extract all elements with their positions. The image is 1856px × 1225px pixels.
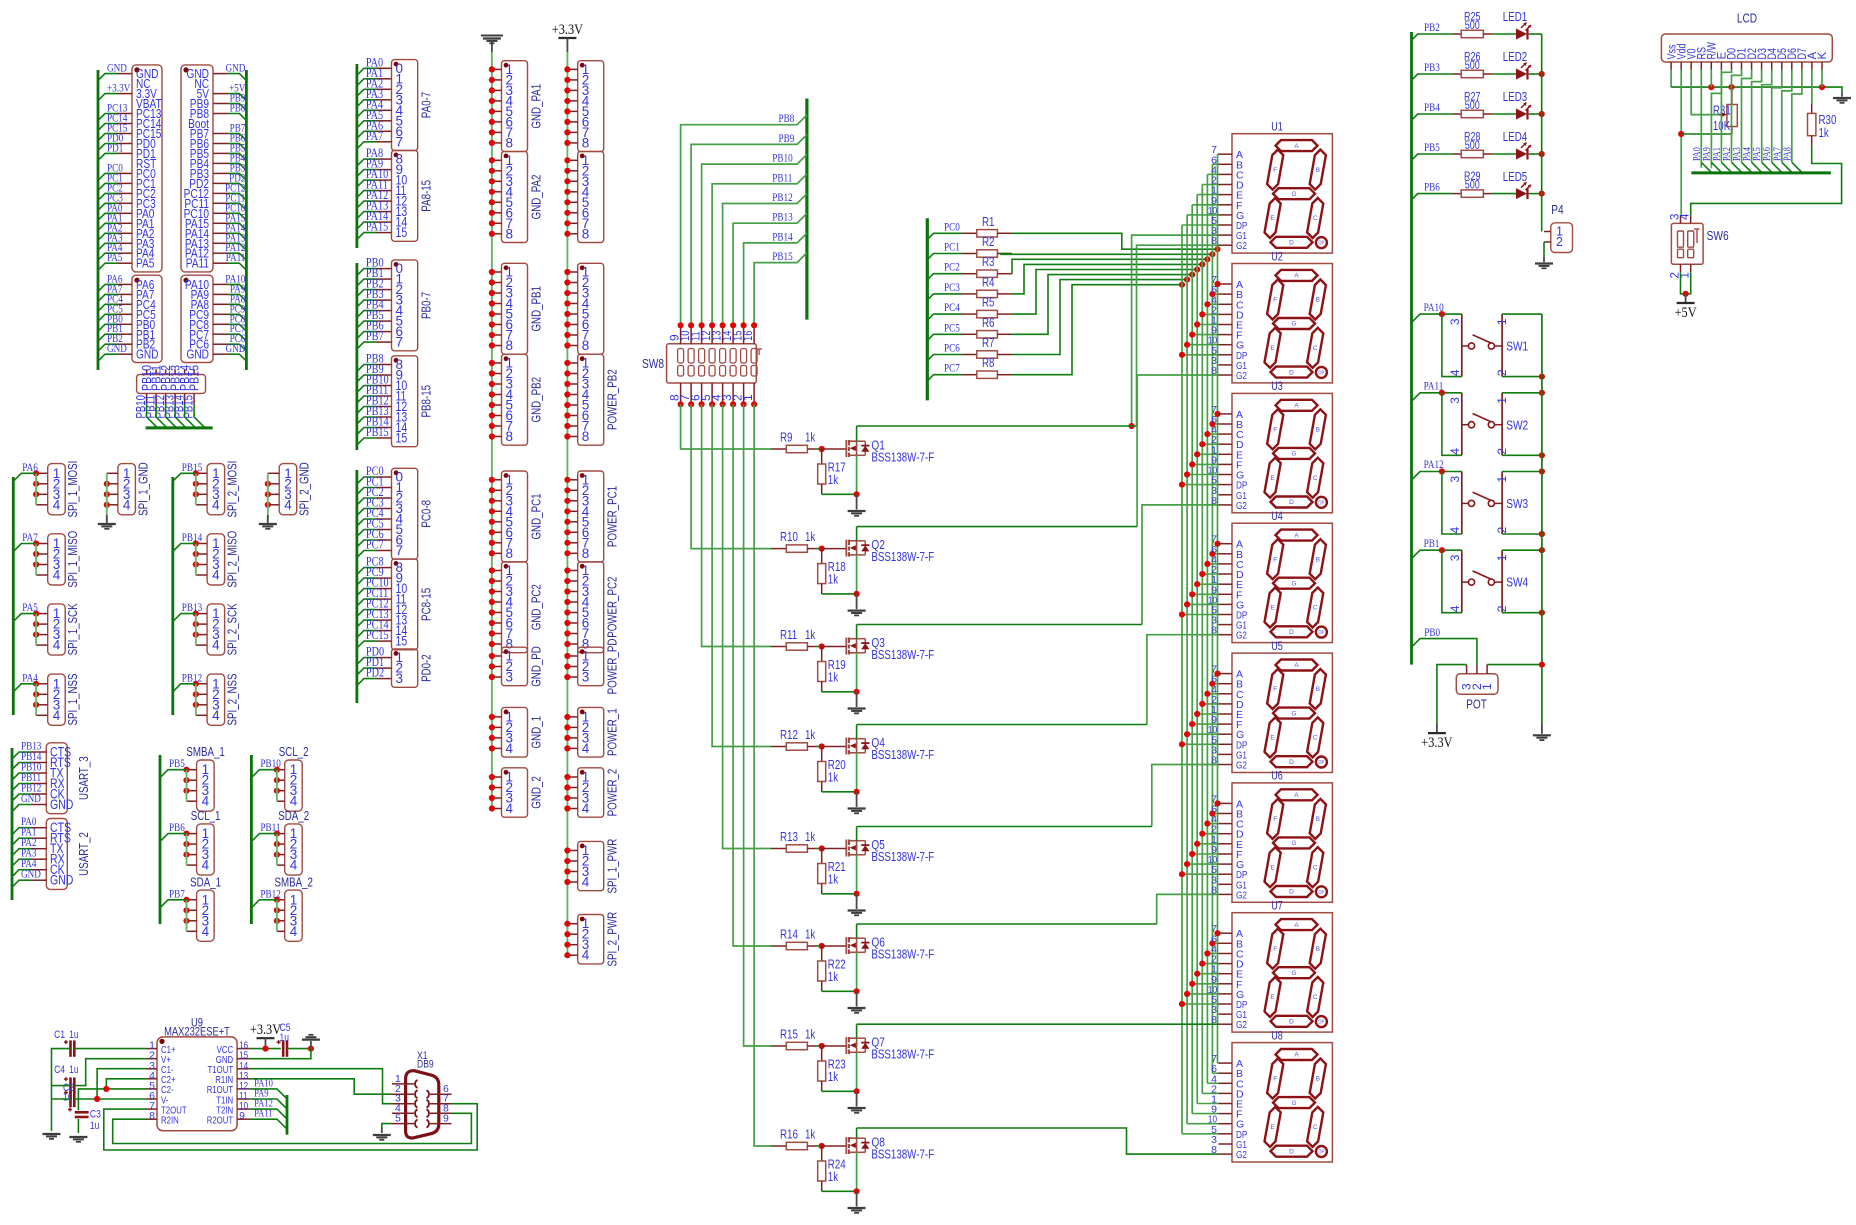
svg-text:G: G xyxy=(1291,840,1296,847)
svg-text:8: 8 xyxy=(506,226,514,241)
wire xyxy=(106,473,108,505)
connector SPI_1_NSS xyxy=(48,674,65,725)
resistor R13 xyxy=(771,848,786,850)
wire xyxy=(815,945,822,947)
resistor R15 xyxy=(771,1045,786,1047)
power +3.3V xyxy=(558,37,576,39)
svg-text:1u: 1u xyxy=(90,1120,100,1132)
connector SCL_2 xyxy=(285,760,303,811)
net PC10 xyxy=(357,589,377,596)
svg-text:15: 15 xyxy=(396,634,408,649)
wire xyxy=(1218,673,1219,675)
svg-text:DB9: DB9 xyxy=(417,1059,434,1071)
connector SPI_1_SCK xyxy=(48,604,65,655)
net PD1 xyxy=(357,668,377,675)
wire xyxy=(287,1048,311,1050)
net PB15 xyxy=(357,438,377,445)
svg-text:MAX232ESE+T: MAX232ESE+T xyxy=(164,1024,230,1038)
svg-text:DP: DP xyxy=(1318,241,1324,247)
svg-text:PA5: PA5 xyxy=(22,602,38,614)
ground xyxy=(856,894,858,909)
resistor R12 xyxy=(771,746,786,748)
junction xyxy=(1539,662,1545,668)
svg-text:R8: R8 xyxy=(982,356,995,370)
svg-text:R14: R14 xyxy=(780,928,798,942)
svg-text:PC0: PC0 xyxy=(944,221,960,233)
svg-text:1k: 1k xyxy=(805,728,816,742)
svg-text:1k: 1k xyxy=(805,530,816,544)
wire xyxy=(35,473,37,505)
net PB2 xyxy=(357,290,377,297)
junction xyxy=(1179,611,1185,617)
wire xyxy=(104,1104,477,1150)
svg-text:G2: G2 xyxy=(1236,889,1247,901)
svg-text:D: D xyxy=(1289,759,1294,766)
svg-text:SMBA_1: SMBA_1 xyxy=(186,745,225,759)
wire xyxy=(195,473,197,505)
svg-text:15: 15 xyxy=(396,225,408,240)
svg-text:F: F xyxy=(1273,427,1277,434)
svg-text:1k: 1k xyxy=(828,671,839,685)
wire xyxy=(1711,70,1721,168)
junction xyxy=(1199,961,1205,967)
junction xyxy=(1179,741,1185,747)
svg-text:4: 4 xyxy=(290,858,298,873)
net GND xyxy=(228,354,246,361)
svg-text:A: A xyxy=(1294,143,1299,150)
wire xyxy=(1492,113,1516,115)
resistor R26 xyxy=(1453,73,1462,75)
net PA5 xyxy=(13,614,36,622)
switch SW6 xyxy=(1671,223,1703,264)
resistor R20 xyxy=(821,747,823,762)
transistor Q6 BSS138W-7-F xyxy=(822,945,847,947)
wire xyxy=(856,555,858,594)
svg-text:DP: DP xyxy=(1318,500,1324,506)
power +5V xyxy=(1685,294,1687,303)
svg-text:B: B xyxy=(1316,686,1320,693)
svg-text:R11: R11 xyxy=(780,628,797,642)
resistor R2 xyxy=(962,253,977,255)
junction xyxy=(819,743,825,749)
svg-text:D: D xyxy=(1289,369,1294,376)
wire xyxy=(1182,873,1219,875)
wire xyxy=(856,527,858,541)
svg-text:D: D xyxy=(1289,1148,1294,1155)
junction xyxy=(1214,246,1220,252)
svg-text:1k: 1k xyxy=(828,473,839,487)
svg-text:G: G xyxy=(1291,710,1296,717)
wire xyxy=(1671,87,1842,93)
svg-text:G: G xyxy=(1291,1100,1296,1107)
svg-text:7: 7 xyxy=(396,543,404,558)
svg-text:F: F xyxy=(1273,946,1277,953)
junction xyxy=(819,643,825,649)
svg-text:4: 4 xyxy=(290,794,298,809)
wire xyxy=(822,493,857,495)
svg-text:PA4: PA4 xyxy=(22,672,38,684)
wire xyxy=(1192,593,1218,595)
svg-text:PC2: PC2 xyxy=(944,262,960,274)
ground xyxy=(491,42,493,52)
svg-text:500: 500 xyxy=(1465,20,1480,32)
net PA2 xyxy=(1732,162,1742,172)
wire xyxy=(1192,853,1218,855)
wire xyxy=(74,1048,146,1050)
LED LED3 xyxy=(1516,109,1527,120)
svg-text:8: 8 xyxy=(1211,495,1217,507)
svg-text:LED1: LED1 xyxy=(1503,10,1527,24)
svg-text:4: 4 xyxy=(290,924,298,939)
net PA5 xyxy=(357,121,377,128)
svg-text:4: 4 xyxy=(582,801,590,816)
junction xyxy=(1199,701,1205,707)
svg-text:SCL_2: SCL_2 xyxy=(279,745,309,759)
svg-text:PB14: PB14 xyxy=(772,231,793,243)
svg-text:LED2: LED2 xyxy=(1503,50,1527,64)
svg-text:GND_1: GND_1 xyxy=(530,716,544,749)
resistor R14 xyxy=(771,945,786,947)
junction xyxy=(1209,551,1215,557)
svg-text:F: F xyxy=(1273,556,1277,563)
svg-text:C: C xyxy=(1313,735,1318,742)
wire xyxy=(1187,603,1218,605)
wire xyxy=(1197,843,1218,845)
svg-text:POWER_1: POWER_1 xyxy=(606,708,620,756)
net PC10 xyxy=(228,213,246,220)
wire xyxy=(856,855,858,894)
svg-text:POWER_PD: POWER_PD xyxy=(606,639,620,695)
net PB2 xyxy=(1412,34,1453,40)
svg-text:4: 4 xyxy=(1448,369,1462,376)
svg-text:4: 4 xyxy=(506,801,514,816)
junction xyxy=(1209,251,1215,257)
wire xyxy=(744,404,771,1046)
net PD2 xyxy=(357,679,377,686)
svg-text:3: 3 xyxy=(1448,318,1462,325)
connector PB10-15 xyxy=(137,375,206,394)
svg-text:R9: R9 xyxy=(780,431,793,445)
net PB14 xyxy=(744,233,807,325)
wire xyxy=(1192,463,1218,465)
svg-text:PB10: PB10 xyxy=(772,153,793,165)
wire xyxy=(113,1113,472,1143)
wire xyxy=(1012,233,1218,249)
wire xyxy=(77,1119,79,1133)
svg-text:PB8: PB8 xyxy=(230,103,246,115)
svg-text:GND: GND xyxy=(187,347,210,362)
svg-text:PB11: PB11 xyxy=(772,172,792,184)
wire xyxy=(1137,245,1219,426)
wire xyxy=(1212,293,1218,295)
junction xyxy=(854,988,860,994)
wire xyxy=(1187,733,1218,735)
wire xyxy=(1012,264,1202,294)
svg-text:8: 8 xyxy=(506,338,514,353)
svg-text:U4: U4 xyxy=(1271,511,1283,523)
svg-text:PB12: PB12 xyxy=(182,672,202,684)
capacitor C5 xyxy=(282,1040,285,1056)
junction xyxy=(1214,930,1220,936)
svg-text:R1: R1 xyxy=(982,215,995,229)
net PA3 xyxy=(1742,162,1752,172)
wire xyxy=(702,404,771,646)
svg-text:2: 2 xyxy=(1556,235,1563,249)
svg-text:E: E xyxy=(1270,735,1275,742)
svg-text:3: 3 xyxy=(1448,397,1462,404)
wire xyxy=(723,404,771,848)
net PC1 xyxy=(98,183,117,190)
wire xyxy=(1710,70,1712,88)
ground xyxy=(856,1191,858,1206)
net PC7 xyxy=(228,334,246,341)
svg-text:E: E xyxy=(1270,864,1275,871)
wire xyxy=(1721,70,1731,163)
svg-text:E: E xyxy=(1270,605,1275,612)
svg-text:C: C xyxy=(1313,1124,1318,1131)
svg-text:PA5: PA5 xyxy=(107,252,123,264)
svg-text:SW8: SW8 xyxy=(642,356,664,371)
svg-text:DP: DP xyxy=(1318,760,1324,766)
net PC9 xyxy=(357,578,377,585)
svg-text:SCL_1: SCL_1 xyxy=(191,809,221,823)
svg-text:PB15: PB15 xyxy=(186,365,201,391)
net PB1 xyxy=(357,279,377,286)
junction xyxy=(1204,691,1210,697)
net PA1 xyxy=(357,79,377,86)
resistor R4 xyxy=(962,293,977,295)
junction xyxy=(1683,291,1689,297)
connector SMBA_2 xyxy=(285,890,303,941)
svg-text:4: 4 xyxy=(53,638,61,653)
resistor R5 xyxy=(962,313,977,315)
svg-text:4: 4 xyxy=(53,497,61,512)
wire xyxy=(195,684,197,716)
junction xyxy=(1184,471,1190,477)
svg-text:DP: DP xyxy=(1318,371,1324,377)
net PA5 xyxy=(1762,162,1772,172)
junction xyxy=(854,591,860,597)
wire xyxy=(1201,185,1203,1094)
svg-text:PB0: PB0 xyxy=(1424,627,1440,639)
wire xyxy=(267,473,269,505)
wire xyxy=(1492,153,1516,155)
svg-text:DP: DP xyxy=(1318,890,1324,896)
wire xyxy=(355,470,358,703)
wire xyxy=(1192,334,1218,336)
wire xyxy=(1529,153,1542,155)
net PA15 xyxy=(357,233,377,240)
capacitor C3 xyxy=(75,1111,89,1114)
svg-text:R2IN: R2IN xyxy=(161,1116,179,1127)
net PB12 xyxy=(357,407,377,414)
wire xyxy=(1218,153,1219,155)
switch SW1 xyxy=(1442,313,1462,315)
wire xyxy=(1137,375,1218,527)
svg-text:4: 4 xyxy=(212,708,220,723)
wire xyxy=(1212,942,1218,944)
junction xyxy=(819,845,825,851)
net PA15 xyxy=(228,223,246,230)
svg-text:+5V: +5V xyxy=(1675,305,1697,321)
wire xyxy=(1202,833,1218,835)
svg-text:SW6: SW6 xyxy=(1707,228,1729,243)
junction xyxy=(1179,482,1185,488)
wire xyxy=(1202,573,1218,575)
transistor Q4 BSS138W-7-F xyxy=(822,746,847,748)
wire xyxy=(1670,70,1672,88)
net PA13 xyxy=(357,212,377,219)
ground xyxy=(1541,723,1543,733)
net PB9 xyxy=(691,135,807,326)
wire xyxy=(856,1152,858,1191)
wire xyxy=(12,477,15,715)
wire xyxy=(805,99,808,320)
svg-text:1: 1 xyxy=(1495,318,1509,325)
wire xyxy=(856,753,858,792)
wire xyxy=(1192,983,1218,985)
svg-text:D: D xyxy=(1289,1019,1294,1026)
transistor Q2 BSS138W-7-F xyxy=(822,548,847,550)
svg-text:4: 4 xyxy=(1448,605,1462,612)
net PB12 xyxy=(723,194,807,326)
svg-text:8: 8 xyxy=(582,546,590,561)
svg-text:A: A xyxy=(1294,662,1299,669)
capacitor C1 xyxy=(69,1040,72,1056)
resistor R24 xyxy=(821,1146,823,1161)
svg-text:PC8-15: PC8-15 xyxy=(420,588,434,621)
junction xyxy=(1209,421,1215,427)
net PA10 xyxy=(357,180,377,187)
svg-text:8: 8 xyxy=(1211,1014,1217,1026)
net PA7 xyxy=(357,142,377,149)
net PA10 xyxy=(1412,314,1442,323)
svg-text:PB15: PB15 xyxy=(772,251,793,263)
svg-text:PD0-2: PD0-2 xyxy=(420,654,434,682)
connector P1 right half xyxy=(181,65,213,272)
wire xyxy=(1502,533,1542,535)
svg-text:B: B xyxy=(1316,427,1320,434)
svg-text:PB4: PB4 xyxy=(1424,102,1440,114)
wire xyxy=(1211,164,1213,1073)
net PA9 xyxy=(228,294,246,301)
wire xyxy=(249,1069,392,1104)
wire xyxy=(1197,583,1218,585)
svg-text:R12: R12 xyxy=(780,728,798,742)
svg-text:PB15: PB15 xyxy=(182,462,203,474)
resistor R27 xyxy=(1453,113,1462,115)
net PC6 xyxy=(228,344,246,351)
junction xyxy=(819,1043,825,1049)
net PC5 xyxy=(357,530,377,537)
wire xyxy=(195,544,197,576)
svg-text:500: 500 xyxy=(1465,140,1480,152)
svg-text:SW2: SW2 xyxy=(1506,417,1528,432)
wire xyxy=(1218,543,1219,545)
net PC13 xyxy=(357,620,377,627)
connector P2 right half xyxy=(181,275,213,362)
svg-text:PC4: PC4 xyxy=(944,302,960,314)
svg-text:+3.3V: +3.3V xyxy=(250,1022,281,1038)
connector GND_PB1 xyxy=(502,263,528,354)
net PA13 xyxy=(228,243,246,250)
svg-text:E: E xyxy=(1270,215,1275,222)
wire xyxy=(712,404,771,746)
wire xyxy=(681,404,771,449)
junction xyxy=(1539,151,1545,157)
net PC6 xyxy=(927,355,962,361)
connector SPI_2_PWR xyxy=(578,915,604,964)
wire xyxy=(1197,324,1218,326)
wire xyxy=(1187,344,1218,346)
wire xyxy=(1492,193,1516,195)
connector POWER_PB2 xyxy=(578,354,604,445)
svg-text:1k: 1k xyxy=(805,830,816,844)
ground xyxy=(1841,93,1843,96)
wire xyxy=(856,1128,858,1138)
svg-text:4: 4 xyxy=(53,568,61,583)
junction xyxy=(1539,390,1545,396)
svg-text:D: D xyxy=(1289,629,1294,636)
net PA9 xyxy=(249,1099,287,1109)
wire xyxy=(822,791,857,793)
svg-text:GND: GND xyxy=(50,797,74,812)
svg-text:1k: 1k xyxy=(1819,126,1830,140)
svg-text:B: B xyxy=(1316,1076,1320,1083)
svg-text:1u: 1u xyxy=(63,1092,73,1104)
svg-text:POWER_PC2: POWER_PC2 xyxy=(606,577,620,638)
svg-text:2: 2 xyxy=(1495,369,1509,376)
svg-text:GND: GND xyxy=(50,873,74,888)
svg-text:G2: G2 xyxy=(1236,1149,1247,1161)
net PC7 xyxy=(927,375,962,381)
resistor R7 xyxy=(962,354,977,356)
junction xyxy=(1179,871,1185,877)
svg-text:4: 4 xyxy=(202,794,210,809)
wire xyxy=(1196,195,1198,1104)
junction xyxy=(1214,671,1220,677)
junction xyxy=(1199,441,1205,447)
wire xyxy=(857,425,1137,427)
net PC1 xyxy=(927,254,962,260)
wire xyxy=(1012,285,1182,375)
svg-text:+3.3V: +3.3V xyxy=(552,22,583,38)
svg-text:16: 16 xyxy=(741,330,755,341)
junction xyxy=(1539,71,1545,77)
svg-text:GND_PD: GND_PD xyxy=(530,646,544,687)
wire xyxy=(856,725,858,739)
wire xyxy=(1001,253,1212,256)
svg-text:2: 2 xyxy=(1495,448,1509,455)
svg-text:R7: R7 xyxy=(982,336,995,350)
net PA8 xyxy=(357,159,377,166)
wire xyxy=(822,990,857,992)
ground xyxy=(267,505,269,521)
wire xyxy=(857,826,1152,828)
wire xyxy=(1202,1092,1218,1094)
resistor R9 xyxy=(771,448,786,450)
net PA5 xyxy=(98,263,117,270)
ground xyxy=(856,792,858,807)
svg-text:PC7: PC7 xyxy=(366,538,384,552)
net PC8 xyxy=(228,324,246,331)
net PC0 xyxy=(927,233,962,239)
wire xyxy=(97,70,100,370)
wire xyxy=(35,544,37,576)
svg-text:R6: R6 xyxy=(982,316,995,330)
svg-text:BSS138W-7-F: BSS138W-7-F xyxy=(871,451,934,465)
wire xyxy=(276,770,278,802)
